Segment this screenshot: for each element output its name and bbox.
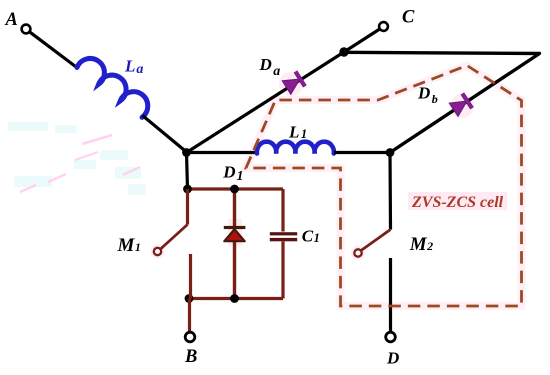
- terminal B: [185, 332, 195, 342]
- wire: [187, 153, 188, 190]
- wire: [30, 32, 78, 68]
- diode Da: [282, 71, 306, 95]
- inductor L1: [257, 142, 334, 154]
- svg-text:B: B: [184, 347, 197, 367]
- ZVS-ZCS cell boundary: [246, 66, 522, 307]
- node junction top: [339, 47, 348, 56]
- node right: [386, 148, 395, 157]
- wire: [388, 153, 392, 230]
- wire: [188, 299, 191, 332]
- terminal A: [22, 25, 31, 34]
- svg-text:ZVS-ZCS cell: ZVS-ZCS cell: [411, 194, 504, 211]
- wire: [344, 29, 381, 53]
- wire: [187, 52, 345, 153]
- terminal C: [379, 22, 388, 31]
- switch M1: [154, 189, 191, 299]
- wire snubber top rail: [188, 187, 284, 190]
- wire: [389, 258, 392, 332]
- inductor La: [76, 53, 155, 118]
- wire: [344, 52, 540, 152]
- node rail bottom-right: [230, 294, 239, 303]
- diode Db: [449, 93, 473, 117]
- wire: [143, 116, 187, 153]
- switch M2: [354, 230, 390, 257]
- capacitor C1: [270, 189, 297, 299]
- wire: [334, 151, 390, 154]
- svg-text:D: D: [386, 349, 399, 368]
- svg-text:A: A: [5, 10, 18, 30]
- node rail bottom-left: [185, 294, 194, 303]
- wire: [187, 151, 258, 154]
- node rail top-right: [230, 185, 239, 194]
- terminal D: [386, 332, 396, 342]
- diode D1: [224, 189, 246, 299]
- node rail top-left: [183, 185, 192, 194]
- node left: [182, 148, 191, 157]
- wire snubber bottom rail: [189, 297, 283, 300]
- svg-text:C: C: [402, 8, 415, 28]
